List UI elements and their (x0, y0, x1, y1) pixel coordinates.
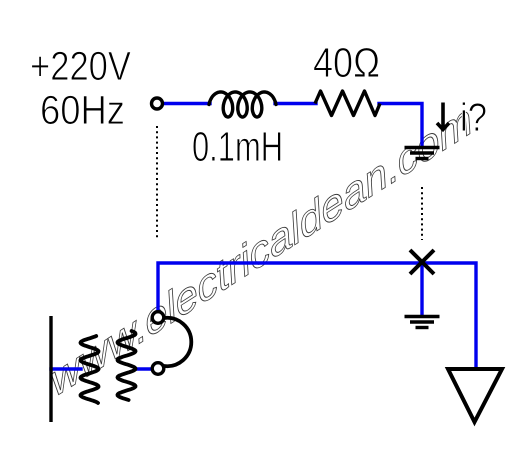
X junction marker (410, 250, 434, 274)
wire X to ground 2 (420, 263, 423, 315)
ground G2 (405, 317, 440, 328)
wire bottom bus (158, 263, 476, 368)
ground G1 (405, 148, 440, 159)
wire wall to primary coil (51, 367, 81, 370)
svg-text:+220V: +220V (30, 43, 132, 89)
svg-text:60Hz: 60Hz (40, 87, 125, 133)
svg-text:0.1mH: 0.1mH (192, 123, 283, 170)
wall / bus bar line (49, 316, 52, 422)
terminal node circle (152, 98, 163, 109)
wire inductor to resistor (275, 102, 316, 105)
wire secondary coil to switch node (135, 367, 152, 370)
dotted line right (421, 187, 423, 240)
switch node top (152, 312, 164, 324)
svg-text:40Ω: 40Ω (313, 39, 380, 86)
output triangle (448, 369, 502, 422)
inductor L1 0.1mH (209, 92, 276, 117)
svg-text:i?: i? (460, 96, 487, 140)
switch arc blade (164, 318, 191, 366)
wire source to inductor (51, 104, 476, 370)
switch node bottom (152, 363, 164, 375)
resistor R1 40Ω (315, 91, 380, 116)
primary coil (81, 336, 99, 403)
dotted line left (156, 126, 158, 238)
arrow i direction (437, 103, 449, 130)
wire resistor to ground 1 (379, 104, 422, 147)
secondary coil (118, 331, 136, 400)
